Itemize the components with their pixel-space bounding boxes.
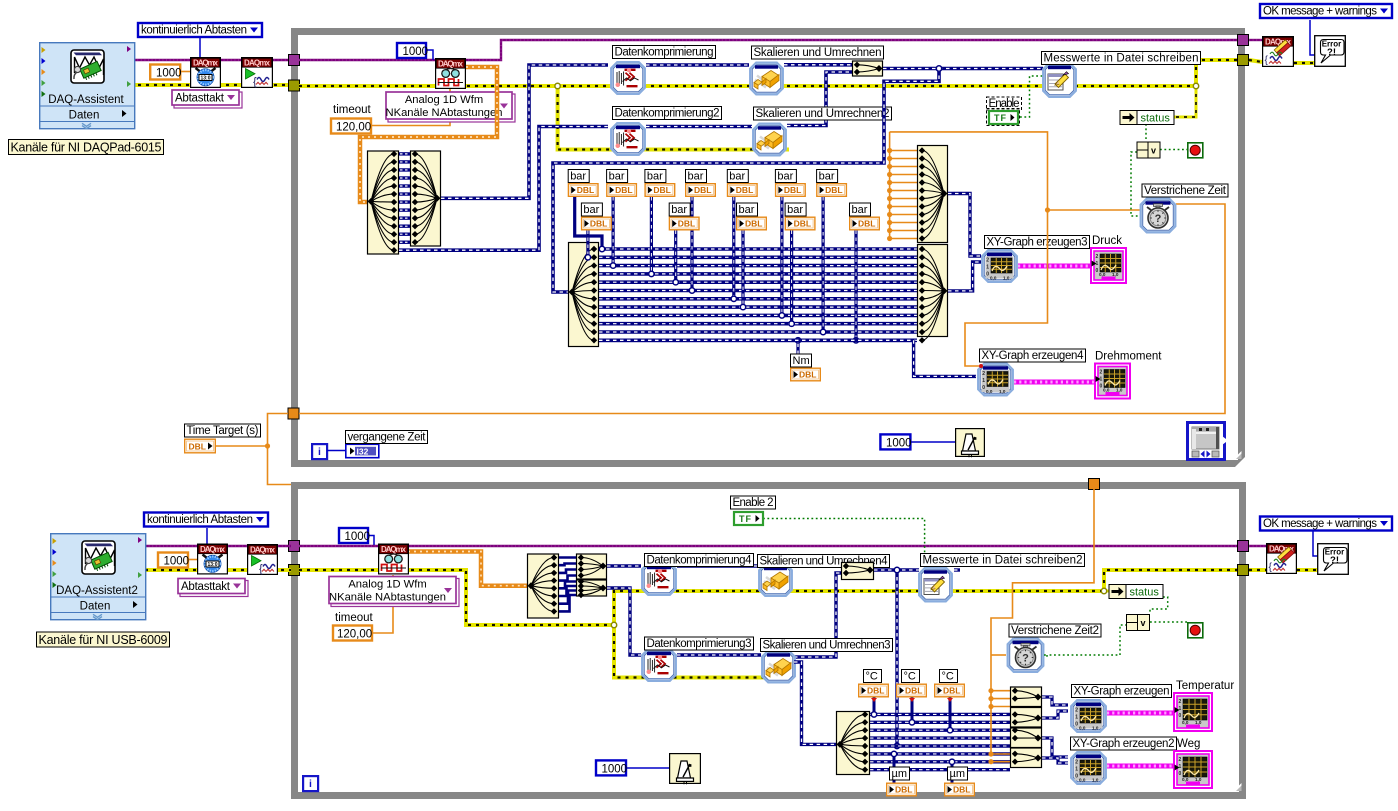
wire Time Target to loops <box>216 414 288 447</box>
svg-text:Time Target (s): Time Target (s) <box>187 425 259 437</box>
wires build column to XY VIs (loop2) <box>1042 697 1068 705</box>
svg-text:DAQmx: DAQmx <box>250 545 276 554</box>
subVI Skalieren und Umrechnen2 <box>753 124 786 156</box>
wire enum to DAQmx timing2 <box>206 528 208 545</box>
label Enable 2 <box>731 496 776 509</box>
wire purple loop1 to DAQmx Clear <box>1249 39 1262 41</box>
svg-text:Skalieren und Umrechnen3: Skalieren und Umrechnen3 <box>763 640 891 652</box>
constant bar (row B) <box>785 203 815 230</box>
wire 1000 to metronome (loop1) <box>910 441 957 443</box>
svg-text:Skalieren und Umrechnen2: Skalieren und Umrechnen2 <box>756 108 890 120</box>
svg-text:bar: bar <box>570 171 586 183</box>
DAQmx Timing VI (loop1) <box>191 58 221 88</box>
simple error handler VI (top) <box>1315 36 1346 67</box>
tab control terminal (loop1) <box>1188 423 1229 460</box>
boolean constant TF Enable (loop1) <box>987 109 1020 126</box>
loop1 corner notch <box>1234 451 1242 459</box>
wire i to vergangene Zeit <box>327 450 346 452</box>
svg-text:1,0: 1,0 <box>1116 388 1123 393</box>
svg-text:Nm: Nm <box>793 355 810 367</box>
svg-text:DBL: DBL <box>799 370 816 380</box>
constant bar (row B) <box>850 203 880 230</box>
svg-text:bar: bar <box>729 171 745 183</box>
svg-text:v: v <box>1151 146 1156 156</box>
constant um <box>945 767 975 796</box>
svg-text:0,0: 0,0 <box>1182 777 1189 782</box>
svg-text:DBL: DBL <box>736 185 753 195</box>
svg-text:13:0: 13:0 <box>207 562 217 568</box>
svg-text:DBL: DBL <box>858 219 875 229</box>
numeric constant 1000 (orange, outside loop1) <box>150 65 181 80</box>
svg-text:1000: 1000 <box>156 68 182 80</box>
wire error Clear to error handler <box>1294 61 1316 65</box>
svg-text:1,0: 1,0 <box>1092 725 1099 730</box>
svg-text:0,0: 0,0 <box>1182 720 1189 725</box>
svg-text:bar: bar <box>787 204 803 216</box>
svg-text:OK message + warnings: OK message + warnings <box>1263 518 1377 530</box>
label Time Target (s) <box>185 424 261 437</box>
index array big node (loop1) <box>569 243 599 347</box>
svg-text:1: 1 <box>986 265 989 271</box>
wire enum OK message to error handler <box>1310 20 1315 55</box>
DAQmx Clear Task VI (loop1) <box>1263 37 1294 67</box>
constant bar (row A) <box>817 170 847 197</box>
svg-text:0: 0 <box>1075 722 1078 728</box>
wire stubs fan to builds (loop2) <box>559 558 576 612</box>
label Skalieren und Umrechnen4 <box>758 555 890 568</box>
svg-text:bar: bar <box>688 171 704 183</box>
label Datenkomprimierung3 <box>645 637 754 650</box>
svg-text:1: 1 <box>1096 261 1099 267</box>
tunnel orange Time Target (loop1 left) <box>288 408 299 419</box>
wire constant 1000 to DAQmx Read (loop1) <box>426 50 433 60</box>
svg-text:2: 2 <box>982 371 985 377</box>
indicator Temperatur <box>1174 693 1212 731</box>
constant degC <box>897 670 927 697</box>
wire error branch up to right tunnel (loop1) <box>1196 60 1238 86</box>
label vergangene Zeit <box>346 431 428 444</box>
svg-text:Kanäle für NI DAQPad-6015: Kanäle für NI DAQPad-6015 <box>11 141 162 155</box>
svg-text:DBL: DBL <box>590 219 607 229</box>
subVI Datenkomprimierung <box>611 62 645 94</box>
svg-text:DBL: DBL <box>694 185 711 195</box>
build array column (loop2 right) <box>1011 687 1042 768</box>
wait until next ms multiple (loop2) <box>670 754 701 785</box>
tunnel error (loop2 right) <box>1238 565 1249 576</box>
wire Datenkomprimierung3 to Skalieren3 <box>677 653 761 656</box>
svg-text:2: 2 <box>1179 757 1182 763</box>
svg-text:bar: bar <box>671 204 687 216</box>
wire purple inside loop2 <box>299 545 1238 547</box>
VI XY-Graph erzeugen3 <box>982 250 1017 282</box>
svg-text:DBL: DBL <box>615 185 632 195</box>
numeric constant 1000 (loop2 bottom) <box>596 760 627 775</box>
DAQmx Read VI (loop2) <box>379 544 409 574</box>
wire build to Datenkomprimierung4 <box>607 564 641 567</box>
svg-text:0: 0 <box>1075 774 1078 780</box>
wire array ch2 to Datenkomprimierung2 <box>399 127 608 251</box>
wire error branch to Datenkomprimierung3 (loop2) <box>614 625 793 678</box>
wire branch down to big index array (loop1) <box>553 69 939 293</box>
indicator Drehmoment <box>1095 364 1130 399</box>
subVI Messwerte in Datei schreiben <box>1043 63 1076 97</box>
build array 2 inputs (loop2) <box>842 563 874 580</box>
svg-text:vergangene Zeit: vergangene Zeit <box>348 432 427 444</box>
svg-text:Verstrichene Zeit: Verstrichene Zeit <box>1144 185 1227 197</box>
label XY-Graph erzeugen2 <box>1071 737 1177 750</box>
svg-text:1: 1 <box>1179 764 1182 770</box>
svg-text:TF: TF <box>739 514 752 524</box>
svg-text:DBL: DBL <box>953 785 970 795</box>
wire orange stopwatch output to bus and XY4 <box>890 132 1140 210</box>
enum constant OK message + warnings (bottom) <box>1260 517 1392 531</box>
constant degC <box>935 670 965 697</box>
svg-text:DBL: DBL <box>867 686 884 696</box>
svg-text:Druck: Druck <box>1092 235 1122 247</box>
build array ch4 (loop2 bottom) <box>577 578 607 598</box>
while loop 2 frame <box>295 486 1243 796</box>
svg-text:0,0: 0,0 <box>1099 272 1106 277</box>
svg-text:status: status <box>1141 113 1171 125</box>
wire orange Time Target long (loop1) <box>299 204 1225 414</box>
control Time Target DBL <box>185 439 216 453</box>
svg-text:0,0: 0,0 <box>1079 777 1086 782</box>
svg-text:?: ? <box>1022 653 1029 665</box>
wire orange hatched DAQmx Read data (loop1) <box>360 67 497 202</box>
svg-text:1,0: 1,0 <box>1195 720 1202 725</box>
boolean constant TF Enable 2 <box>734 512 763 525</box>
constant degC <box>859 670 889 697</box>
label Verstrichene Zeit2 <box>1009 624 1101 637</box>
svg-text:XY-Graph erzeugen3: XY-Graph erzeugen3 <box>987 237 1088 249</box>
svg-text:timeout: timeout <box>335 612 374 624</box>
numeric constant 1000 (loop1 bottom) <box>880 434 911 449</box>
enum constant kontinuierlich Abtasten (loop1) <box>138 23 262 37</box>
index array fan (loop2) <box>528 554 559 618</box>
svg-text:Skalieren und Umrechnen: Skalieren und Umrechnen <box>754 47 882 59</box>
wire purple loop2 to Clear2 <box>1249 545 1266 547</box>
wire Skalieren output to build array <box>784 63 852 67</box>
svg-text:DAQmx: DAQmx <box>438 59 464 68</box>
constant um <box>887 767 917 796</box>
svg-text:NKanäle NAbtastungen: NKanäle NAbtastungen <box>386 107 503 119</box>
DAQmx Clear Task VI (loop2) <box>1267 544 1297 574</box>
label Skalieren und Umrechnen <box>752 46 884 59</box>
iteration terminal i (loop2) <box>303 776 318 791</box>
VI XY-Graph erzeugen4 <box>978 364 1013 396</box>
svg-text:1: 1 <box>1100 377 1103 383</box>
svg-text:DBL: DBL <box>895 785 912 795</box>
svg-text:bar: bar <box>819 171 835 183</box>
svg-text:v: v <box>1141 618 1146 628</box>
fan node (loop2 bottom) <box>837 711 870 774</box>
VI Verstrichene Zeit stopwatch (loop1) <box>1141 199 1176 233</box>
svg-text:°C: °C <box>866 671 878 683</box>
svg-text:1,0: 1,0 <box>1112 272 1119 277</box>
enum constant Abtasttakt (loop1) <box>172 90 242 108</box>
wire error to status and right tunnel (loop2) <box>1104 570 1238 591</box>
svg-text:0,0: 0,0 <box>990 275 997 280</box>
label Datenkomprimierung <box>613 46 716 59</box>
svg-text:DBL: DBL <box>745 219 762 229</box>
enum constant Analog 1D Wfm NKanaele NAbtastungen (loop1) <box>386 92 515 122</box>
wire Skalieren2 output up to build array <box>787 72 852 126</box>
wire Messwerte2 blue out <box>954 568 960 571</box>
wire pink XY3 to Druck <box>1018 264 1091 269</box>
wire array ch1 to Datenkomprimierung <box>441 65 608 198</box>
wire Skalieren3 to bottom fan (loop2) <box>794 662 836 744</box>
svg-text:kontinuierlich Abtasten: kontinuierlich Abtasten <box>141 25 247 37</box>
unbundle v (loop2) <box>1127 615 1150 631</box>
svg-text:?!: ?! <box>1327 47 1336 58</box>
constant Nm <box>796 340 799 368</box>
svg-text:DBL: DBL <box>189 442 206 452</box>
svg-text:NKanäle NAbtastungen: NKanäle NAbtastungen <box>329 592 446 604</box>
wire bus 8 channels (loop2) <box>870 714 1010 769</box>
coercion dot XY4 <box>979 364 983 368</box>
express VI DAQ-Assistent2 <box>51 534 146 620</box>
svg-text:i: i <box>318 446 321 458</box>
while loop 1 frame <box>295 32 1242 464</box>
wire orange 1000 to DAQmx timing2 <box>188 559 203 561</box>
wire pink XY1 to Temperatur <box>1107 711 1174 716</box>
wire Datenkomprimierung2 to Skalieren und Umrechnen2 <box>646 125 752 129</box>
constants um to bus (loop2) <box>891 751 954 783</box>
constant bar (row A) <box>568 170 598 197</box>
junction Time Target <box>265 443 270 448</box>
svg-text:1,0: 1,0 <box>1195 777 1202 782</box>
label Messwerte in Datei schreiben2 <box>921 554 1085 567</box>
simple error handler VI (bottom) <box>1318 544 1349 575</box>
stop LED (loop2) <box>1188 623 1203 638</box>
svg-text:Verstrichene Zeit2: Verstrichene Zeit2 <box>1011 625 1099 637</box>
DAQmx Start Task VI (loop1) <box>242 58 273 88</box>
svg-text:{: { <box>253 76 257 88</box>
wire timeout to DAQmx Read (loop1) <box>371 89 450 126</box>
free label Kanaele fuer NI USB-6009 <box>37 632 170 647</box>
subVI Datenkomprimierung2 <box>611 123 645 155</box>
svg-text:2: 2 <box>1100 370 1103 376</box>
wire Y array to XY-Graph erzeugen3 <box>948 262 981 291</box>
label Datenkomprimierung2 <box>613 107 722 120</box>
svg-text:XY-Graph erzeugen2: XY-Graph erzeugen2 <box>1073 738 1175 750</box>
svg-text:1,0: 1,0 <box>999 389 1006 394</box>
svg-text:DBL: DBL <box>784 185 801 195</box>
indicator Druck <box>1091 248 1126 283</box>
svg-text:°C: °C <box>942 671 954 683</box>
svg-text:bar: bar <box>852 204 868 216</box>
DAQmx Read VI (loop1) <box>436 59 466 89</box>
svg-text:Messwerte in Datei schreiben2: Messwerte in Datei schreiben2 <box>923 555 1083 567</box>
label Verstrichene Zeit <box>1142 184 1228 197</box>
wire build to Datenkomprimierung3 <box>607 588 641 655</box>
wire timeout to DAQmx Read2 <box>372 575 393 633</box>
indicator I32 vergangene Zeit <box>346 444 379 457</box>
constant bar (row A) <box>727 170 757 197</box>
label XY-Graph erzeugen <box>1072 685 1172 698</box>
orange bus vertical (loop1) <box>887 132 918 241</box>
constant bar (row B) <box>737 203 767 230</box>
svg-text:Analog 1D Wfm: Analog 1D Wfm <box>348 579 426 591</box>
label XY-Graph erzeugen4 <box>980 349 1086 362</box>
svg-text:1000: 1000 <box>403 46 429 58</box>
svg-text:timeout: timeout <box>333 104 372 116</box>
svg-text:0: 0 <box>986 272 989 278</box>
svg-text:DBL: DBL <box>653 185 670 195</box>
label Messwerte in Datei schreiben <box>1042 52 1201 65</box>
wire green stopwatch2 out <box>1044 654 1047 656</box>
subVI Messwerte in Datei schreiben2 <box>919 568 952 602</box>
svg-text:Abtasttakt: Abtasttakt <box>181 581 231 593</box>
svg-text:0: 0 <box>1179 713 1182 719</box>
svg-text:1: 1 <box>1179 706 1182 712</box>
bundle status (loop2) <box>1109 585 1163 599</box>
svg-text:µm: µm <box>950 768 966 780</box>
wire green status chain (loop1) <box>1145 124 1147 141</box>
svg-text:2: 2 <box>1075 708 1078 714</box>
svg-text:°C: °C <box>904 671 916 683</box>
svg-text:Datenkomprimierung4: Datenkomprimierung4 <box>647 555 753 567</box>
wire Datenkomprimierung4 to Skalieren4 <box>677 564 758 567</box>
express VI DAQ-Assistent <box>40 43 135 129</box>
wire pink XY2 to Weg <box>1107 764 1174 769</box>
tunnel orange Time Target (loop2 top) <box>1089 479 1100 490</box>
wire stubs between fan pair (loop1) <box>399 154 410 242</box>
svg-text:2: 2 <box>1179 699 1182 705</box>
svg-text:Kanäle für NI USB-6009: Kanäle für NI USB-6009 <box>39 633 168 647</box>
wire error DAQ-Assistent to loop1 <box>130 83 291 87</box>
numeric constant 120,00 (loop1) <box>331 119 371 134</box>
svg-text:DBL: DBL <box>825 185 842 195</box>
svg-text:DBL: DBL <box>943 686 960 696</box>
svg-text:kontinuierlich Abtasten: kontinuierlich Abtasten <box>147 514 253 526</box>
wire Datenkomprimierung to Skalieren und Umrechnen <box>646 63 749 67</box>
svg-text:13:0: 13:0 <box>200 76 210 82</box>
wire Y array bottom to XY-Graph erzeugen4 <box>599 338 914 342</box>
bundle status (loop1) <box>1120 111 1174 125</box>
constant bar (row B) <box>669 203 699 230</box>
svg-text:1000: 1000 <box>886 438 912 450</box>
numeric constant 1000 (blue, loop2) <box>339 528 370 543</box>
svg-text:1000: 1000 <box>164 556 190 568</box>
svg-text:2: 2 <box>1096 254 1099 260</box>
numeric constant 120,00 (loop2) <box>333 626 372 641</box>
wire enum to DAQmx timing <box>199 38 201 58</box>
subVI Datenkomprimierung4 <box>642 563 676 595</box>
wire error inside loop2 part1 <box>299 570 614 625</box>
svg-text:i: i <box>309 778 312 790</box>
svg-text:2: 2 <box>1075 760 1078 766</box>
svg-text:Abtasttakt: Abtasttakt <box>175 93 225 105</box>
enum constant Abtasttakt (loop2) <box>178 579 248 597</box>
unbundle v (loop1) <box>1137 142 1160 158</box>
junction blue (loop1) <box>936 66 941 71</box>
indicator Weg <box>1174 751 1212 788</box>
svg-text:Daten: Daten <box>80 601 111 613</box>
svg-text:?: ? <box>1155 213 1162 225</box>
svg-text:status: status <box>1130 587 1160 599</box>
wire constant 1000 to DAQmx Read2 <box>367 536 374 546</box>
svg-text:DAQ-Assistent: DAQ-Assistent <box>48 94 124 106</box>
tunnel purple (loop1 right) <box>1238 35 1249 46</box>
svg-text:bar: bar <box>583 204 599 216</box>
svg-text:bar: bar <box>647 171 663 183</box>
wire bus 12 channels (loop1) <box>599 249 917 340</box>
DAQmx Start Task VI (loop2) <box>248 545 278 575</box>
wire error branch to row2 (loop1) <box>558 86 789 150</box>
svg-text:0,0: 0,0 <box>986 389 993 394</box>
svg-text:Datenkomprimierung: Datenkomprimierung <box>615 47 714 59</box>
wire purple inside loop1 <box>299 40 1238 60</box>
constant bar (row A) <box>686 170 716 197</box>
wire error branch main (loop2) <box>614 591 1104 625</box>
svg-text:DAQ-Assistent2: DAQ-Assistent2 <box>56 585 138 597</box>
constants degC to bus (loop2) <box>871 697 953 733</box>
svg-text:1000: 1000 <box>345 531 371 543</box>
svg-text:DBL: DBL <box>905 686 922 696</box>
svg-text:bar: bar <box>777 171 793 183</box>
build array X values (loop1 top) <box>918 146 948 243</box>
svg-text:Analog 1D Wfm: Analog 1D Wfm <box>405 94 483 106</box>
constant bar (row A) <box>607 170 637 197</box>
subVI Skalieren und Umrechnen3 <box>762 651 795 683</box>
svg-text:bar: bar <box>609 171 625 183</box>
svg-text:TF: TF <box>994 113 1007 123</box>
build array node (loop1 left fan pair) <box>411 151 441 246</box>
VI XY-Graph erzeugen2 <box>1071 752 1106 784</box>
wire orange constant 1000 to DAQmx timing <box>181 71 196 73</box>
label XY-Graph erzeugen3 <box>985 236 1090 249</box>
svg-text:OK message + warnings: OK message + warnings <box>1263 6 1377 18</box>
wire build output to Messwerte2 and down <box>874 568 919 571</box>
constant bar (row B) <box>581 203 611 230</box>
tunnel error (loop1 right) <box>1238 55 1249 66</box>
svg-text:2: 2 <box>986 258 989 264</box>
wire green status chain (loop2) <box>1150 597 1168 614</box>
svg-text:Daten: Daten <box>69 110 100 122</box>
svg-text:Datenkomprimierung3: Datenkomprimierung3 <box>647 638 752 650</box>
svg-text:0,0: 0,0 <box>1103 388 1110 393</box>
wire error branch down to status (loop1) <box>1173 86 1196 117</box>
wait until next ms multiple (loop1) <box>956 429 985 458</box>
svg-text:I32: I32 <box>357 446 369 456</box>
wire 1000 to metronome (loop2) <box>627 767 671 769</box>
svg-text:DBL: DBL <box>794 219 811 229</box>
wire error loop1 to DAQmx Clear <box>1249 60 1262 62</box>
wire Skalieren3 up to build array (loop2) <box>794 573 841 657</box>
svg-text:DBL: DBL <box>577 185 594 195</box>
build array Y values (loop1 bottom) <box>918 245 948 344</box>
index array node (loop1 left fan) <box>368 151 399 254</box>
svg-text:1000: 1000 <box>602 764 628 776</box>
enum constant OK message + warnings (top) <box>1260 4 1392 18</box>
DAQmx Timing VI (loop2) <box>198 544 228 574</box>
wire error loop2 to Clear2 <box>1249 568 1266 572</box>
svg-text:bar: bar <box>739 204 755 216</box>
constant bar (row A) <box>645 170 675 197</box>
wire error main inside loop1 <box>299 84 1196 88</box>
enum constant kontinuierlich Abtasten (loop2) <box>144 513 268 527</box>
svg-text:120,00: 120,00 <box>336 122 371 134</box>
numeric constant 1000 (orange, loop2) <box>158 553 189 568</box>
wire X array to XY-Graph erzeugen3 <box>948 194 981 257</box>
wire build array output to Messwerte in Datei schreiben <box>883 67 1043 71</box>
tunnel error (loop2 left) <box>289 565 300 576</box>
svg-text:Temperatur: Temperatur <box>1176 680 1234 692</box>
svg-text:Messwerte in Datei schreiben: Messwerte in Datei schreiben <box>1044 53 1199 65</box>
svg-text:Enable 2: Enable 2 <box>733 497 774 509</box>
label Datenkomprimierung4 <box>645 554 754 567</box>
